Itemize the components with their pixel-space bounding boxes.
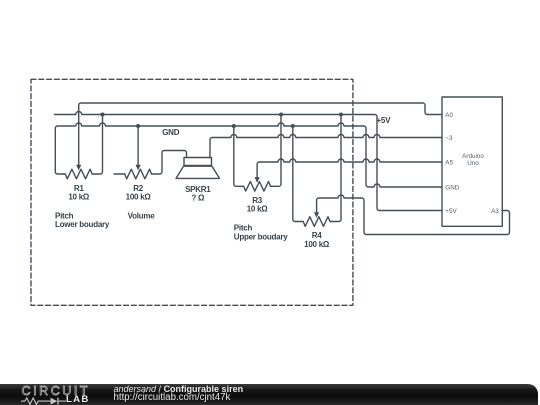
- wire net GND: R1 left lead, bus y=126, down at x=366, to GND pin: [55, 123, 442, 187]
- logo resistor zigzag + diode: [21, 396, 68, 405]
- junction node on GND bus at R4 left: [291, 124, 295, 128]
- wiper arrow R1: [76, 165, 81, 171]
- wiper arrow R2: [136, 165, 141, 171]
- wire net A5: R3 wiper up, bus y=162 to pin A5: [257, 159, 442, 178]
- wire R4 right lead to +5V bus: [330, 115, 341, 222]
- svg-text:? Ω: ? Ω: [191, 194, 205, 203]
- speaker SPKR1 body: [184, 158, 212, 166]
- wire R2 right lead to speaker left terminal: [152, 151, 187, 175]
- wire R4 left lead to GND bus: [293, 126, 303, 222]
- resistor R2 (pot) zigzag: [125, 169, 152, 179]
- svg-text:A0: A0: [445, 112, 453, 119]
- svg-text:~3: ~3: [445, 135, 453, 142]
- svg-text:GND: GND: [445, 184, 459, 191]
- svg-text:Uno: Uno: [467, 160, 479, 167]
- wire net +5V: bus y=114.5 with hop at R1 wiper, down at x=377 to +5V pin: [55, 112, 443, 211]
- svg-text:Upper boudary: Upper boudary: [234, 233, 288, 242]
- wire R2 wiper from GND bus: [137, 126, 139, 165]
- svg-text:Pitch: Pitch: [234, 223, 253, 232]
- svg-text:Volume: Volume: [128, 212, 156, 221]
- svg-text:100 kΩ: 100 kΩ: [304, 240, 330, 249]
- svg-text:+5V: +5V: [445, 208, 457, 215]
- footer title line: [114, 385, 244, 394]
- CircuitLab logo wordmark CIRCUIT: [22, 385, 91, 398]
- junction node on +5V bus at R4 right: [339, 113, 343, 117]
- junction node on GND bus at R2 wiper: [136, 124, 140, 128]
- dashed annotation box: [31, 79, 353, 305]
- svg-text:10 kΩ: 10 kΩ: [68, 193, 90, 202]
- wire net A0: R1 wiper up, across top, jog down to Arduino pin A0: [79, 103, 442, 165]
- svg-text:A5: A5: [445, 159, 453, 166]
- wire R2 left open lead: [114, 173, 125, 175]
- junction node on GND bus at R3 left: [232, 124, 236, 128]
- footer url line: [114, 393, 231, 403]
- svg-text:Arduino: Arduino: [462, 153, 484, 160]
- svg-text:100 kΩ: 100 kΩ: [126, 193, 152, 202]
- junction node on +5V bus at R3 right: [279, 113, 283, 117]
- junction node on +5V bus at R1 right: [101, 113, 105, 117]
- svg-text:+5V: +5V: [377, 116, 392, 125]
- resistor R3 (pot) zigzag: [244, 182, 271, 192]
- logo LAB: [66, 395, 90, 405]
- wire net ~3: speaker right terminal up, bus y=137.5 to pin ~3: [210, 135, 442, 158]
- svg-text:Lower boudary: Lower boudary: [55, 220, 110, 229]
- wiper arrow R3: [255, 177, 260, 183]
- resistor R1 (pot) zigzag: [65, 169, 92, 179]
- svg-text:GND: GND: [162, 128, 180, 137]
- IC box: Arduino Uno: [442, 97, 502, 226]
- resistor R4 (pot) zigzag: [303, 217, 330, 227]
- svg-text:A3: A3: [491, 208, 499, 215]
- wire net A3: R4 wiper right y=198, down x=364, along y=234.5, up to pin A3: [317, 195, 510, 235]
- wire R1 right lead to +5V bus: [92, 115, 102, 175]
- wire R3 left lead to GND bus: [234, 126, 244, 186]
- footer bar: [0, 384, 538, 405]
- wire R3 right lead to +5V bus: [271, 115, 282, 187]
- wiper arrow R4: [314, 212, 319, 218]
- svg-text:10 kΩ: 10 kΩ: [247, 205, 269, 214]
